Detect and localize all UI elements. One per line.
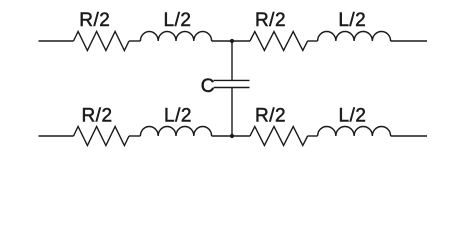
svg-text:R/2: R/2 xyxy=(79,10,110,31)
svg-text:L/2: L/2 xyxy=(164,106,192,127)
resistor R/2 top-left xyxy=(74,32,130,51)
svg-text:R/2: R/2 xyxy=(81,106,112,127)
wire top-left lead xyxy=(39,40,74,42)
svg-text:R/2: R/2 xyxy=(255,10,286,31)
svg-text:C: C xyxy=(201,76,215,97)
wire capacitor upper branch xyxy=(231,41,233,80)
wire bottom between R and L (right) xyxy=(308,135,318,137)
wire bottom between R and L (left) xyxy=(129,135,140,137)
resistor R/2 bottom-left xyxy=(74,127,130,146)
capacitor C plates xyxy=(214,80,250,87)
svg-text:L/2: L/2 xyxy=(164,10,192,31)
node junction dot top xyxy=(230,39,234,43)
inductor L/2 bottom-left xyxy=(140,126,211,136)
inductor L/2 top-right xyxy=(318,32,391,41)
wire capacitor lower branch xyxy=(231,88,233,137)
wire top-right lead xyxy=(391,40,427,42)
inductor L/2 bottom-right xyxy=(318,127,391,137)
wire top from L to junction and to R (right) xyxy=(212,40,250,42)
node junction dot bottom xyxy=(230,134,234,138)
wire top between R and L (left) xyxy=(129,40,140,42)
resistor R/2 bottom-right xyxy=(250,127,308,146)
wire bottom-right lead xyxy=(391,135,427,137)
wire top between R and L (right) xyxy=(308,40,318,42)
wire bottom-left lead xyxy=(39,135,74,137)
svg-text:L/2: L/2 xyxy=(339,106,367,127)
wire bottom from L to junction and to R (right) xyxy=(212,135,250,137)
svg-text:L/2: L/2 xyxy=(338,10,366,31)
resistor R/2 top-right xyxy=(250,32,308,51)
inductor L/2 top-left xyxy=(140,32,211,42)
svg-text:R/2: R/2 xyxy=(255,106,286,127)
